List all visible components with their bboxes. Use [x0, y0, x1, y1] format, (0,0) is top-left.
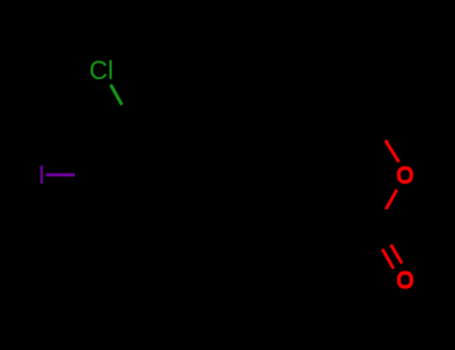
atom label O (carbonyl oxygen, red) drawn as ring: [399, 273, 412, 287]
svg-text:I: I: [38, 162, 45, 190]
double bond C=O line 2 (red): [391, 245, 402, 264]
aromatic inner bonds: [114, 133, 187, 216]
black parts of C=O double bond near carbonyl carbon: [369, 235, 392, 249]
bond C-I (purple half near I): [46, 173, 75, 176]
benzene ring (carbon bonds, black on black): [104, 130, 220, 223]
wire: chain ring to carbonyl (black carbon bonds): [220, 106, 391, 250]
bond CH3-O (red half near O): [385, 141, 398, 163]
double bond C=O line 1 (red): [383, 249, 394, 268]
svg-text:Cl: Cl: [89, 57, 113, 85]
atom label O (ester oxygen, red) drawn as ring: [399, 168, 412, 182]
bond C-Cl (green half near Cl): [111, 85, 122, 105]
bond CH3 to midpoint of O-CH3 bond (black half): [366, 106, 386, 141]
bond O-C(=O) (red half near O): [386, 190, 397, 210]
black half of ester O - carbonyl C bond: [369, 209, 387, 240]
